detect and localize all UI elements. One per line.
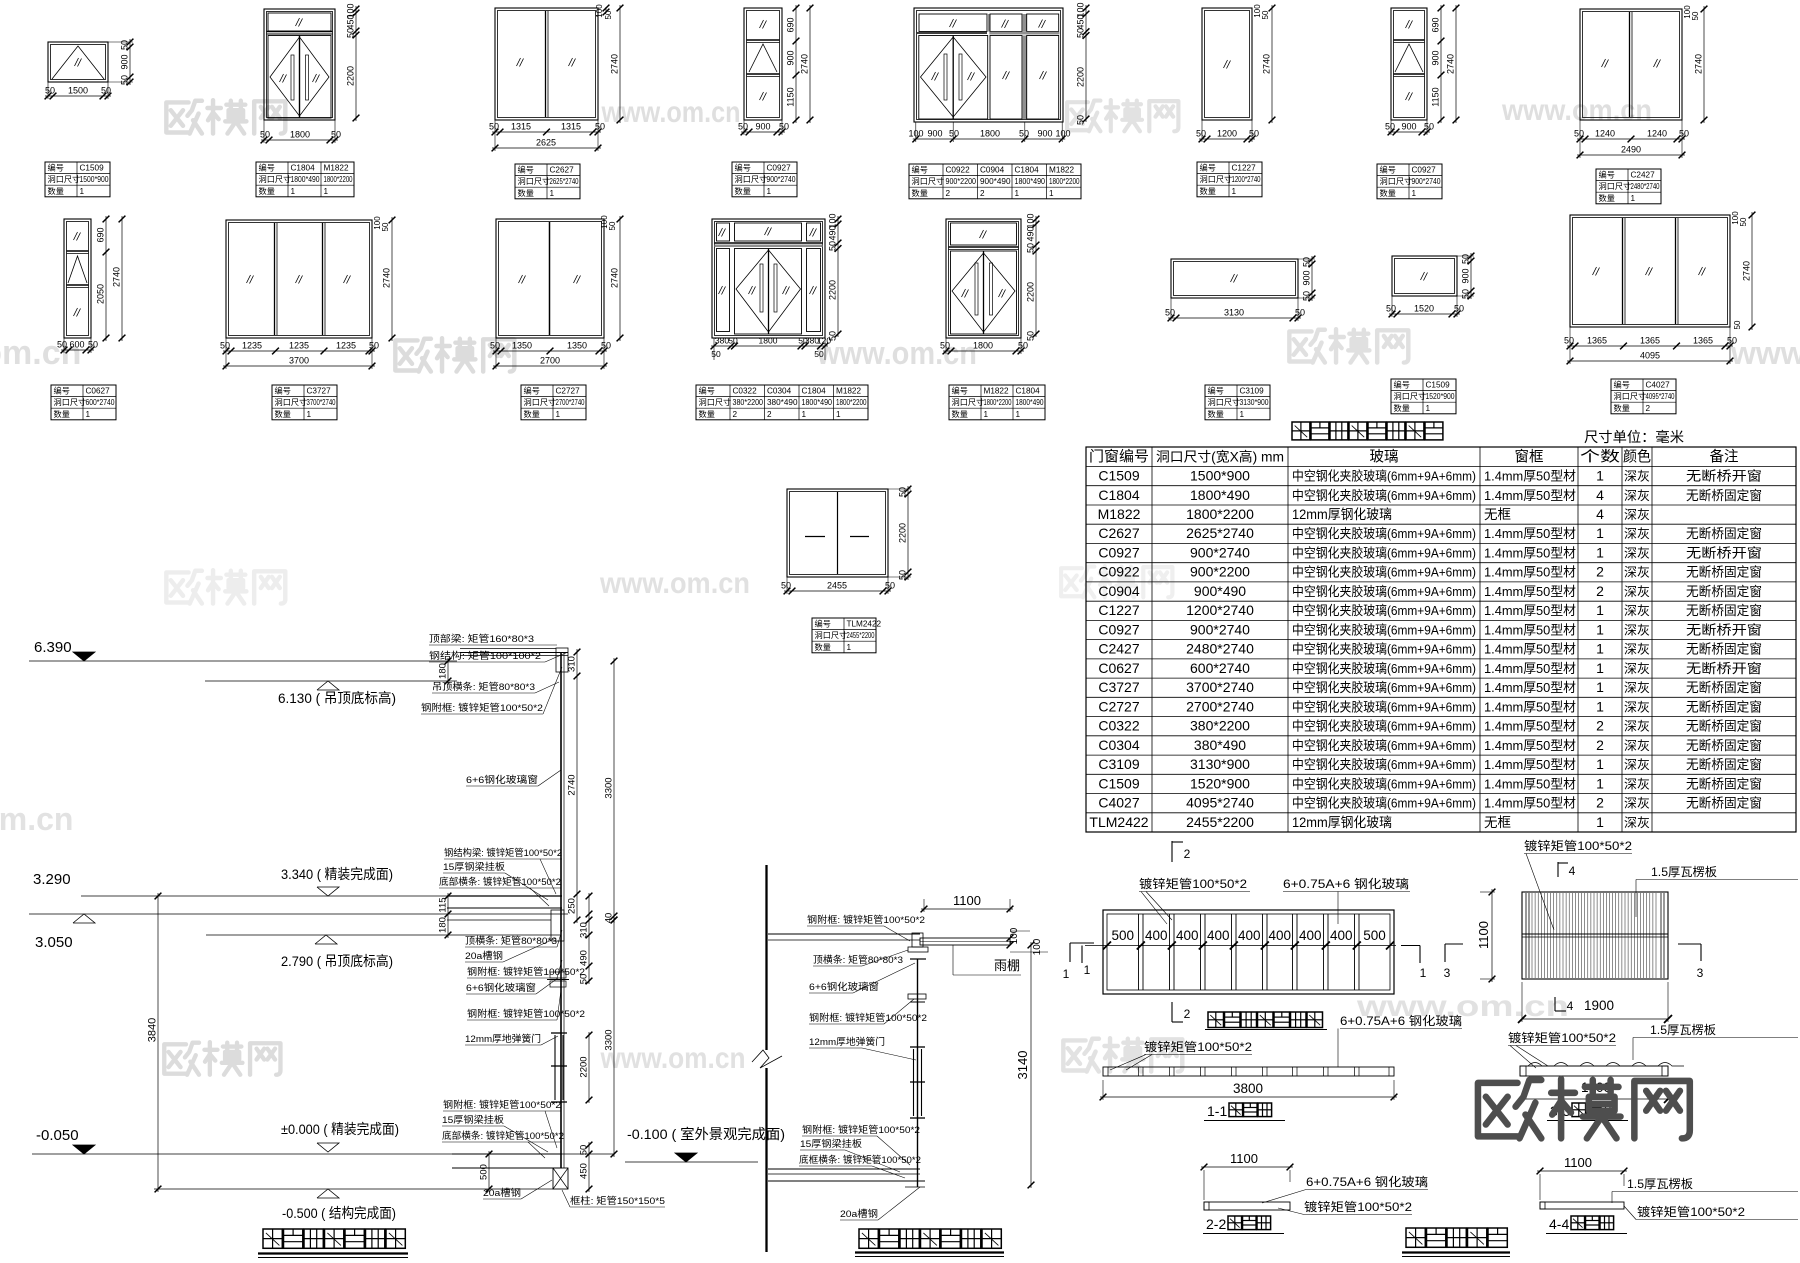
svg-text:TLM2422: TLM2422 [847, 620, 882, 629]
svg-text:380*490: 380*490 [767, 398, 798, 407]
svg-text:1: 1 [1631, 194, 1636, 203]
leader 钢附框 canopy bottom [802, 1124, 920, 1165]
door M1822+C1804 elevation [946, 219, 1021, 338]
label 镀锌矩管100*50*2 3-3 [1508, 1030, 1616, 1068]
window C2427 elevation [1580, 9, 1682, 120]
leader 框柱 矩管150*150*5 [562, 1190, 665, 1207]
svg-text:±0.000 ( 精装完成面): ±0.000 ( 精装完成面) [281, 1121, 399, 1137]
dimension 2200/3300 lower [579, 917, 618, 1158]
watermark omw mid-left [166, 570, 285, 603]
svg-text:中空钢化夹胶玻璃(6mm+9A+6mm): 中空钢化夹胶玻璃(6mm+9A+6mm) [1292, 776, 1476, 791]
svg-text:C0922: C0922 [946, 166, 971, 175]
svg-text:2200: 2200 [579, 1056, 590, 1077]
window C3109 elevation [1171, 259, 1298, 298]
level -0.050 line [32, 1127, 614, 1154]
window C1227 elevation [1202, 8, 1252, 120]
svg-text:50: 50 [885, 581, 895, 591]
svg-text:2.790 ( 吊顶底标高): 2.790 ( 吊顶底标高) [281, 953, 393, 969]
svg-text:1: 1 [767, 187, 772, 196]
svg-text:1: 1 [1596, 814, 1604, 830]
svg-text:洞口尺寸: 洞口尺寸 [1200, 174, 1233, 184]
canopy glass vertical [917, 959, 919, 1187]
svg-text:500: 500 [479, 1164, 490, 1180]
level 3.340 精装完成面 line [81, 866, 562, 896]
svg-text:2200: 2200 [828, 280, 838, 300]
svg-text:4095*2740: 4095*2740 [1646, 392, 1676, 401]
svg-text:50: 50 [779, 122, 789, 132]
svg-text:1: 1 [802, 410, 807, 419]
svg-text:洞口尺寸: 洞口尺寸 [259, 174, 292, 184]
window C2727 elevation [496, 219, 604, 338]
dimension C3109 bottom 3130 [1165, 298, 1305, 321]
svg-text:洞口尺寸: 洞口尺寸 [1208, 397, 1241, 407]
dimension C4027 right 2740 [1731, 211, 1755, 331]
svg-text:编号: 编号 [1380, 165, 1396, 175]
dimension 3140 [1015, 942, 1034, 1189]
svg-text:数量: 数量 [259, 186, 275, 196]
svg-text:20a槽钢: 20a槽钢 [840, 1208, 878, 1220]
leader 6+6钢化玻璃窗 canopy [809, 963, 915, 993]
svg-text:C1227: C1227 [1098, 602, 1139, 618]
svg-text:1: 1 [984, 410, 989, 419]
svg-text:中空钢化夹胶玻璃(6mm+9A+6mm): 中空钢化夹胶玻璃(6mm+9A+6mm) [1292, 488, 1476, 503]
svg-text:中空钢化夹胶玻璃(6mm+9A+6mm): 中空钢化夹胶玻璃(6mm+9A+6mm) [1292, 622, 1476, 637]
svg-text:www.om.cn: www.om.cn [601, 96, 741, 129]
svg-text:数量: 数量 [912, 188, 928, 198]
svg-text:3800: 3800 [1233, 1081, 1263, 1096]
svg-text:1: 1 [550, 189, 555, 198]
svg-text:50: 50 [1165, 308, 1175, 318]
svg-text:50: 50 [949, 129, 959, 139]
svg-text:C0927: C0927 [1412, 166, 1437, 175]
leader 20a槽钢 mid [465, 938, 556, 962]
svg-text:C2627: C2627 [1098, 525, 1139, 541]
svg-text:编号: 编号 [952, 386, 968, 396]
table M1822 C1804 [949, 385, 1045, 420]
svg-text:1235: 1235 [242, 341, 262, 351]
svg-text:400: 400 [1299, 928, 1322, 943]
svg-text:无断桥固定窗: 无断桥固定窗 [1686, 738, 1762, 753]
svg-text:50: 50 [1679, 129, 1689, 139]
svg-text:1800*490: 1800*490 [291, 175, 321, 184]
table C0927 second [1377, 164, 1442, 199]
label 镀锌矩管100*50*2 1-1 [1110, 1039, 1252, 1070]
svg-text:中空钢化夹胶玻璃(6mm+9A+6mm): 中空钢化夹胶玻璃(6mm+9A+6mm) [1292, 738, 1476, 753]
svg-text:深灰: 深灰 [1624, 508, 1650, 522]
svg-text:50: 50 [1424, 122, 1434, 132]
svg-text:3130*900: 3130*900 [1190, 756, 1250, 772]
svg-text:洞口尺寸: 洞口尺寸 [518, 176, 551, 186]
level 2.790 吊顶底标高 line [206, 935, 560, 969]
section mark 1 plan left [1082, 946, 1091, 978]
svg-text:6+0.75A+6 钢化玻璃: 6+0.75A+6 钢化玻璃 [1340, 1014, 1462, 1028]
svg-text:2740: 2740 [610, 268, 620, 288]
svg-text:镀锌矩管100*50*2: 镀锌矩管100*50*2 [1637, 1204, 1745, 1219]
table C2627 [515, 164, 580, 199]
dimension C2627 right 2740 [595, 4, 623, 124]
window C0927 elevation second [1391, 8, 1427, 120]
svg-text:50: 50 [1461, 254, 1471, 264]
svg-text:1: 1 [1412, 189, 1417, 198]
svg-text:www.om.cn: www.om.cn [816, 335, 977, 371]
dimension TLM2422 bottom 2455 [781, 577, 895, 594]
svg-text:C0627: C0627 [1098, 660, 1139, 676]
svg-text:400: 400 [1176, 928, 1199, 943]
svg-text:数量: 数量 [1394, 403, 1410, 413]
svg-text:50: 50 [260, 130, 270, 140]
svg-text:6.130 ( 吊顶底标高): 6.130 ( 吊顶底标高) [278, 690, 396, 706]
svg-text:115: 115 [438, 897, 449, 912]
svg-text:无断桥固定窗: 无断桥固定窗 [1686, 584, 1762, 599]
svg-text:2455: 2455 [827, 581, 847, 591]
svg-text:2200: 2200 [1076, 67, 1086, 87]
dimension C0927 second bottom 900 [1385, 120, 1434, 135]
svg-text:1: 1 [1596, 468, 1604, 484]
svg-text:镀锌矩管100*50*2: 镀锌矩管100*50*2 [1144, 1039, 1252, 1054]
table C1227 [1197, 162, 1262, 197]
svg-text:500: 500 [1363, 928, 1386, 943]
svg-text:C0904: C0904 [1098, 583, 1139, 599]
svg-text:900: 900 [120, 54, 130, 69]
svg-text:50: 50 [1295, 308, 1305, 318]
svg-text:1100: 1100 [1230, 1151, 1258, 1166]
level -0.100 室外景观完成面 [625, 1126, 785, 1162]
svg-text:无断桥固定窗: 无断桥固定窗 [1686, 699, 1762, 714]
table C0927 first [732, 162, 797, 197]
dimension C1509 second bottom 1520 [1386, 296, 1464, 317]
label 镀锌矩管100*50*2 corr plan [1524, 838, 1632, 930]
svg-text:洞口尺寸: 洞口尺寸 [699, 397, 732, 407]
svg-text:250: 250 [567, 898, 578, 914]
svg-text:洞口尺寸: 洞口尺寸 [524, 397, 557, 407]
svg-text:6+0.75A+6 钢化玻璃: 6+0.75A+6 钢化玻璃 [1283, 877, 1409, 891]
svg-text:2740: 2740 [1742, 261, 1752, 281]
svg-text:1: 1 [1015, 189, 1020, 198]
svg-text:无断桥固定窗: 无断桥固定窗 [1686, 642, 1762, 657]
svg-text:100: 100 [1009, 927, 1020, 944]
svg-text:深灰: 深灰 [1624, 681, 1650, 695]
leader 钢附框 bottom [443, 1099, 561, 1148]
svg-text:2455*2200: 2455*2200 [1186, 814, 1254, 830]
svg-text:洞口尺寸: 洞口尺寸 [54, 397, 87, 407]
svg-text:50: 50 [1739, 217, 1748, 226]
leader 顶部梁 矩管160*80*3 [429, 633, 557, 645]
svg-text:100: 100 [1026, 213, 1036, 228]
svg-text:50: 50 [331, 130, 341, 140]
leader 6+6钢化玻璃窗 upper [466, 770, 561, 786]
svg-text:1500*900: 1500*900 [80, 175, 110, 184]
svg-text:1.4mm厚50型材: 1.4mm厚50型材 [1484, 757, 1576, 772]
title 4-4剖面图 [1546, 1216, 1627, 1234]
svg-text:1.5厚瓦楞板: 1.5厚瓦楞板 [1650, 1022, 1716, 1037]
svg-text:1: 1 [1596, 545, 1604, 561]
table title 门窗大样、门窗表 [1292, 422, 1443, 440]
svg-text:C1509: C1509 [1426, 381, 1451, 390]
svg-text:编号: 编号 [524, 386, 540, 396]
svg-text:2740: 2740 [567, 774, 578, 795]
svg-text:50: 50 [57, 340, 67, 350]
svg-text:2200: 2200 [1026, 282, 1036, 302]
svg-text:50: 50 [88, 340, 98, 350]
leader 钢附框 canopy mid [809, 999, 927, 1024]
svg-text:1: 1 [1426, 404, 1431, 413]
svg-text:顶横条: 矩管80*80*3: 顶横条: 矩管80*80*3 [465, 935, 557, 947]
leader 12mm厚地弹簧门 canopy [809, 1036, 916, 1060]
svg-text:900*2740: 900*2740 [1412, 177, 1442, 186]
svg-text:洞口尺寸: 洞口尺寸 [912, 176, 945, 186]
svg-text:2740: 2740 [1694, 54, 1704, 74]
svg-text:900: 900 [1302, 270, 1312, 285]
svg-text:C0304: C0304 [767, 387, 792, 396]
dimension 1900 3-3 [1516, 1080, 1672, 1103]
svg-text:编号: 编号 [1394, 380, 1410, 390]
section mark 2 top [1172, 841, 1191, 862]
svg-text:数量: 数量 [1614, 403, 1630, 413]
svg-text:深灰: 深灰 [1624, 758, 1650, 772]
svg-text:50: 50 [346, 28, 356, 38]
dimension composite bottom 100/900/50/1800/50/900/100 [908, 122, 1070, 142]
svg-text:900*2740: 900*2740 [1190, 621, 1250, 637]
canopy slab bar [920, 938, 1010, 945]
svg-text:中空钢化夹胶玻璃(6mm+9A+6mm): 中空钢化夹胶玻璃(6mm+9A+6mm) [1292, 584, 1476, 599]
svg-text:C0922: C0922 [1098, 564, 1139, 580]
corrugated canopy plan [1522, 892, 1668, 979]
svg-text:180: 180 [438, 917, 449, 933]
svg-text:4: 4 [1596, 506, 1604, 522]
svg-text:1: 1 [1063, 967, 1070, 981]
leader 吊顶横条 矩管80*80*3 [432, 681, 559, 693]
svg-text:C1509: C1509 [1098, 468, 1139, 484]
leader 钢附框 镀锌矩管100*50*2 top [421, 667, 562, 714]
svg-text:深灰: 深灰 [1624, 662, 1650, 676]
svg-text:900*2200: 900*2200 [946, 177, 977, 186]
svg-text:镀锌矩管100*50*2: 镀锌矩管100*50*2 [1524, 838, 1632, 853]
svg-text:数量: 数量 [54, 409, 70, 419]
dimension C2727 right 2740 [600, 215, 623, 342]
dimension C3727 bottom 1235x3 3700 [220, 338, 379, 369]
svg-text:450: 450 [579, 1163, 590, 1179]
svg-text:1.4mm厚50型材: 1.4mm厚50型材 [1484, 796, 1576, 811]
svg-text:洞口尺寸: 洞口尺寸 [275, 397, 308, 407]
svg-text:2-2: 2-2 [1206, 1216, 1226, 1232]
svg-text:1: 1 [836, 410, 841, 419]
table C1804 M1822 [256, 162, 354, 197]
svg-text:2740: 2740 [800, 54, 810, 74]
svg-text:1200*2740: 1200*2740 [1232, 175, 1262, 184]
canopy mid connector [908, 994, 926, 1002]
dimension C0627 bottom 600 [57, 338, 98, 353]
svg-text:2700*2740: 2700*2740 [1186, 698, 1254, 714]
svg-text:900: 900 [1461, 268, 1471, 283]
svg-text:100: 100 [1032, 938, 1043, 955]
svg-text:3840: 3840 [147, 1018, 159, 1042]
table C3109 [1205, 385, 1270, 420]
svg-text:C0904: C0904 [980, 166, 1005, 175]
svg-text:M1822: M1822 [1098, 506, 1141, 522]
svg-text:1.5厚瓦楞板: 1.5厚瓦楞板 [1627, 1176, 1693, 1191]
svg-text:无断桥固定窗: 无断桥固定窗 [1686, 526, 1762, 541]
section 1-1 bar [1103, 1067, 1394, 1076]
svg-text:C0322: C0322 [1098, 718, 1139, 734]
svg-text:钢附框: 镀锌矩管100*50*2: 钢附框: 镀锌矩管100*50*2 [807, 914, 925, 926]
svg-text:1.4mm厚50型材: 1.4mm厚50型材 [1484, 584, 1576, 599]
leader 钢附框 mid1 [467, 960, 585, 978]
svg-text:50: 50 [490, 341, 500, 351]
canopy plan bay labels 500/400 [1112, 928, 1386, 943]
svg-text:690: 690 [96, 227, 106, 242]
svg-text:1: 1 [1596, 641, 1604, 657]
svg-text:C3109: C3109 [1240, 387, 1265, 396]
svg-text:C0927: C0927 [767, 164, 792, 173]
svg-text:C1509: C1509 [1098, 775, 1139, 791]
section mark 3 plan right [1444, 944, 1463, 980]
svg-text:1150: 1150 [786, 87, 796, 106]
dimension 180 top [438, 658, 452, 685]
leader 15厚钢梁挂板 mid [443, 861, 548, 900]
svg-text:3700*2740: 3700*2740 [307, 398, 337, 407]
dimension 1900 corr plan [1518, 982, 1672, 1023]
svg-text:3130: 3130 [1224, 308, 1244, 318]
svg-text:50: 50 [601, 341, 611, 351]
svg-text:900: 900 [1037, 129, 1052, 139]
svg-text:2: 2 [980, 189, 985, 198]
svg-text:中空钢化夹胶玻璃(6mm+9A+6mm): 中空钢化夹胶玻璃(6mm+9A+6mm) [1292, 469, 1476, 484]
svg-text:50: 50 [1018, 341, 1028, 351]
svg-text:12mm厚钢化玻璃: 12mm厚钢化玻璃 [1292, 814, 1392, 830]
svg-text:900: 900 [755, 122, 770, 132]
svg-text:C2727: C2727 [1098, 698, 1139, 714]
svg-text:2200: 2200 [346, 66, 356, 86]
section mark 1 mid diagram [1063, 943, 1094, 981]
svg-text:50: 50 [1302, 257, 1312, 267]
leader 底部横条 bottom [442, 1130, 564, 1158]
svg-text:1.4mm厚50型材: 1.4mm厚50型材 [1484, 565, 1576, 580]
dimension composite2 bottom 380/50/1800/50/380/120 [711, 336, 832, 361]
table C1509 [45, 162, 110, 197]
svg-text:50: 50 [608, 221, 617, 230]
svg-text:-0.500 ( 结构完成面): -0.500 ( 结构完成面) [282, 1205, 396, 1221]
canopy plan dim line with ticks [1085, 942, 1396, 950]
svg-text:洞口尺寸: 洞口尺寸 [735, 174, 768, 184]
label 1.5厚瓦楞板 corr plan [1636, 864, 1798, 917]
svg-text:50: 50 [1026, 243, 1036, 253]
svg-text:TLM2422: TLM2422 [1089, 814, 1148, 830]
svg-text:400: 400 [1145, 928, 1168, 943]
door leaf section [551, 1033, 567, 1102]
svg-text:50: 50 [1385, 122, 1395, 132]
svg-text:编号: 编号 [518, 165, 534, 175]
svg-text:1.4mm厚50型材: 1.4mm厚50型材 [1484, 776, 1576, 791]
watermark omw struct [164, 1042, 280, 1075]
svg-text:380*2200: 380*2200 [733, 398, 764, 407]
svg-text:2455*2200: 2455*2200 [847, 631, 875, 640]
svg-text:洞口尺寸(宽X高) mm: 洞口尺寸(宽X高) mm [1156, 449, 1284, 465]
svg-text:钢附框: 镀锌矩管100*50*2: 钢附框: 镀锌矩管100*50*2 [802, 1124, 920, 1136]
svg-text:1: 1 [1420, 966, 1427, 980]
svg-text:无断桥固定窗: 无断桥固定窗 [1686, 488, 1762, 503]
svg-text:深灰: 深灰 [1624, 700, 1650, 714]
svg-text:顶部梁: 矩管160*80*3: 顶部梁: 矩管160*80*3 [429, 633, 534, 645]
svg-text:C2427: C2427 [1098, 641, 1139, 657]
svg-text:1: 1 [1596, 698, 1604, 714]
label 6+0.75A+6钢化玻璃 plan [1283, 877, 1410, 924]
window C3727 elevation [226, 220, 372, 338]
svg-text:1100: 1100 [1564, 1155, 1592, 1170]
svg-text:深灰: 深灰 [1624, 643, 1650, 657]
label 1.5厚瓦楞板 4-4 [1612, 1176, 1798, 1203]
svg-text:900*490: 900*490 [1194, 583, 1246, 599]
svg-text:吊顶横条: 矩管80*80*3: 吊顶横条: 矩管80*80*3 [432, 681, 535, 693]
svg-text:w.om.cn: w.om.cn [0, 801, 73, 837]
dimension M1822 door right chain [1026, 213, 1040, 341]
svg-text:1800: 1800 [290, 130, 310, 140]
svg-text:3: 3 [1444, 966, 1451, 980]
svg-text:个数: 个数 [1580, 449, 1621, 466]
svg-text:深灰: 深灰 [1624, 816, 1650, 830]
svg-text:50: 50 [898, 570, 908, 580]
svg-text:50: 50 [1454, 304, 1464, 314]
svg-text:C1509: C1509 [80, 164, 105, 173]
svg-text:50: 50 [1019, 129, 1029, 139]
leader 6+6钢化玻璃窗 mid [466, 978, 558, 994]
svg-text:钢结构梁: 镀锌矩管100*50*2: 钢结构梁: 镀锌矩管100*50*2 [444, 847, 562, 859]
svg-text:1: 1 [80, 187, 85, 196]
svg-text:中空钢化夹胶玻璃(6mm+9A+6mm): 中空钢化夹胶玻璃(6mm+9A+6mm) [1292, 546, 1476, 561]
dimension chain right upper 310/2740/250 [567, 649, 581, 924]
svg-text:2: 2 [1184, 847, 1191, 861]
svg-text:1.4mm厚50型材: 1.4mm厚50型材 [1484, 488, 1576, 503]
svg-text:1: 1 [1596, 775, 1604, 791]
dimension C2727 bottom 1350/1350 2700 [490, 338, 611, 369]
svg-text:900*490: 900*490 [980, 177, 1011, 186]
svg-text:中空钢化夹胶玻璃(6mm+9A+6mm): 中空钢化夹胶玻璃(6mm+9A+6mm) [1292, 661, 1476, 676]
table C2727 [521, 385, 586, 420]
svg-text:深灰: 深灰 [1624, 470, 1650, 484]
dimension TLM2422 right 2200 [888, 486, 911, 581]
svg-text:2: 2 [1596, 564, 1604, 580]
label 6+0.75A+6钢化玻璃 2-2 [1262, 1175, 1428, 1203]
svg-text:深灰: 深灰 [1624, 720, 1650, 734]
dimension 115/180 mid [438, 893, 452, 939]
label 6+0.75A+6钢化玻璃 1-1 [1338, 1014, 1462, 1067]
svg-text:1500: 1500 [68, 86, 88, 96]
watermark omw canopy-plan left [1063, 1038, 1182, 1071]
svg-text:50: 50 [940, 341, 950, 351]
watermark omw top-left [166, 100, 285, 133]
svg-text:1: 1 [1596, 525, 1604, 541]
table TLM2422 [812, 618, 882, 653]
svg-text:C4027: C4027 [1098, 795, 1139, 811]
level 0.000 精装完成面 [281, 1121, 399, 1152]
svg-text:6+6钢化玻璃窗: 6+6钢化玻璃窗 [466, 982, 536, 994]
svg-text:1: 1 [1596, 756, 1604, 772]
dimension C0627 right 690/2050 and 2740 [96, 216, 126, 342]
top connector assembly [460, 648, 568, 672]
table C0627 [51, 385, 116, 420]
svg-text:690: 690 [786, 17, 796, 32]
svg-text:600*2740: 600*2740 [86, 398, 116, 407]
svg-text:底框横条: 镀锌矩管100*50*2: 底框横条: 镀锌矩管100*50*2 [799, 1154, 921, 1166]
svg-text:50: 50 [828, 241, 838, 251]
svg-text:编号: 编号 [48, 163, 64, 173]
svg-text:2: 2 [946, 189, 951, 198]
svg-text:2740: 2740 [1262, 54, 1272, 74]
svg-text:无断桥开窗: 无断桥开窗 [1686, 469, 1762, 484]
svg-text:400: 400 [1269, 928, 1292, 943]
svg-text:1.4mm厚50型材: 1.4mm厚50型材 [1484, 642, 1576, 657]
svg-text:C1804: C1804 [1098, 487, 1139, 503]
svg-text:3700*2740: 3700*2740 [1186, 679, 1254, 695]
